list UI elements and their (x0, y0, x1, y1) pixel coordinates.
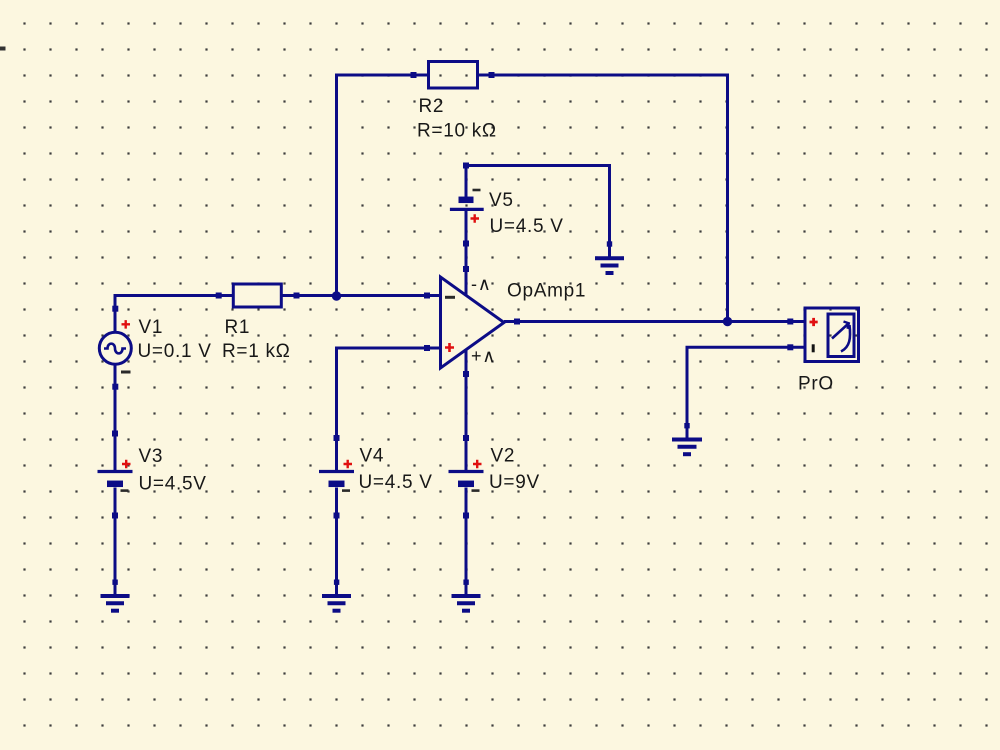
resistor R1 (216, 284, 300, 307)
wire (492, 75, 728, 322)
battery V4 (319, 435, 354, 519)
wire (115, 296, 219, 309)
ground (below V3) (101, 580, 130, 611)
wire (335, 516, 338, 583)
wire (465, 374, 468, 438)
svg-text:U=0.1 V: U=0.1 V (138, 341, 212, 362)
svg-text:-∧: -∧ (471, 274, 492, 294)
wire (114, 387, 117, 434)
svg-text:OpAmp1: OpAmp1 (507, 281, 586, 302)
svg-text:V4: V4 (360, 446, 385, 467)
op-amp U1 OpAmp1 (424, 266, 520, 377)
wire (297, 294, 428, 297)
battery V2 (449, 435, 484, 519)
voltmeter PrO (787, 308, 858, 362)
resistor R2 (411, 62, 495, 89)
svg-text:U=4.5 V: U=4.5 V (359, 472, 433, 493)
ground (below V4) (322, 580, 351, 611)
ground (below V2) (452, 580, 481, 611)
svg-text:V2: V2 (491, 446, 516, 467)
svg-text:R1: R1 (225, 317, 251, 338)
svg-text:PrO: PrO (798, 374, 834, 395)
svg-text:R=1 kΩ: R=1 kΩ (222, 341, 291, 362)
svg-text:U=9V: U=9V (489, 472, 540, 493)
wire (465, 516, 468, 583)
svg-text:V5: V5 (489, 190, 514, 211)
svg-text:U=4.5 V: U=4.5 V (490, 216, 564, 237)
ac source V1 (99, 306, 131, 390)
svg-text:R=10 kΩ: R=10 kΩ (417, 121, 497, 142)
junction node B (723, 317, 732, 326)
svg-text:V3: V3 (139, 446, 164, 467)
ground (V5 return) (595, 241, 624, 273)
junction node A (332, 291, 341, 300)
svg-text:V1: V1 (139, 317, 164, 338)
svg-text:U=4.5V: U=4.5V (139, 474, 207, 495)
wire (687, 347, 790, 425)
svg-text:R2: R2 (419, 96, 445, 117)
wire (337, 348, 428, 438)
ground (probe return) (672, 423, 702, 454)
wire (517, 320, 790, 323)
wire (465, 244, 468, 270)
wire (337, 75, 414, 296)
battery V3 (98, 431, 133, 519)
svg-text:+∧: +∧ (471, 346, 496, 366)
battery V5 (450, 163, 484, 247)
wire (466, 166, 610, 245)
wire (114, 516, 117, 583)
